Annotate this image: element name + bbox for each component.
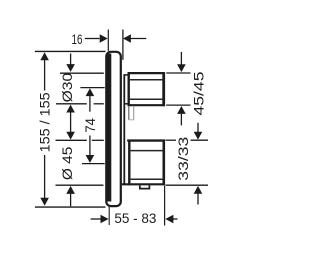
dimension Ø45: bottom extension line [56, 184, 104, 186]
shared stem between Ø30 bottom and Ø45 top arrows [70, 111, 72, 133]
bottom handle knob outline [127, 139, 165, 141]
dimension Ø45: bottom arrow [66, 186, 75, 194]
svg-text:45/45: 45/45 [191, 71, 207, 115]
dimension 33/33: bottom arrow [194, 186, 203, 194]
dimension 45/45: top extension line [166, 72, 190, 74]
dimension 74: bottom arrow [89, 136, 91, 157]
dimension 74: top arrow [86, 88, 95, 96]
shutoff notch under bottom handle [140, 185, 150, 188]
top handle knob outline [128, 72, 165, 74]
dimension 16: left arrow [85, 38, 100, 40]
top handle inner ridge lines [130, 79, 164, 81]
dimension 55-83: left arrow [91, 218, 102, 220]
dimension 45/45: bottom extension line [166, 104, 190, 106]
dimension 155/155: top arrow [40, 52, 49, 60]
dimension 155/155: top extension line [35, 50, 106, 52]
dimension 155/155: bottom arrow [40, 198, 49, 206]
top handle flange bottom [124, 103, 129, 105]
housing strip behind handles [123, 74, 125, 184]
dimension 55-83: right extension line [164, 186, 166, 226]
bottom handle centerline [82, 163, 105, 165]
dimension 155/155: bottom extension line [35, 206, 106, 208]
dimension 55-83: left extension line [108, 207, 110, 225]
svg-text:16: 16 [72, 31, 83, 47]
dimension 16: right extension line [122, 30, 124, 60]
escutcheon plate (side view, rounded slab) [106, 52, 121, 206]
top handle flange top [124, 74, 129, 76]
dimension 16: left extension line [107, 30, 109, 52]
dimension 33/33: top extension line [166, 139, 177, 141]
dimension 16: right arrow [130, 38, 147, 40]
dimension 45/45: top arrow [180, 52, 182, 65]
dimension 33/33: top arrow [197, 123, 199, 134]
dimension 33/33: bottom extension line [166, 184, 209, 186]
svg-text:33/33: 33/33 [175, 136, 191, 180]
plate front thick edge band [106, 54, 111, 202]
temperature stop tab below top handle [128, 106, 130, 120]
dimension 45/45: bottom arrow [177, 106, 186, 114]
dimension Ø30: bottom extension line [56, 103, 87, 105]
top handle centerline [80, 87, 104, 89]
dimension 55-83: right arrow [165, 215, 173, 224]
dimension Ø30: bottom arrow [66, 105, 75, 113]
dimension Ø30: top arrow [70, 54, 72, 66]
svg-text:Ø 45: Ø 45 [59, 146, 75, 180]
dimension Ø45: top extension line [56, 139, 87, 141]
bottom handle inner ridge lines [131, 150, 164, 152]
dimension Ø45: top arrow [66, 132, 75, 140]
svg-text:74: 74 [82, 118, 98, 133]
svg-text:155 / 155: 155 / 155 [37, 92, 53, 152]
svg-text:Ø30: Ø30 [59, 73, 75, 103]
svg-text:55 - 83: 55 - 83 [114, 210, 156, 226]
dimension Ø30: top extension line [60, 72, 104, 74]
